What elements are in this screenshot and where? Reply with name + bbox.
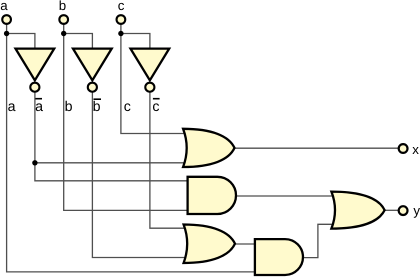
svg-text:b: b [93,99,101,115]
wire input a main run to AND2 bottom input [7,24,258,272]
wire OR1 output to terminal x [233,147,398,149]
svg-text:a: a [0,0,8,13]
svg-text:a: a [35,99,43,115]
svg-text:b: b [65,99,73,115]
wire NOT2 output bbar to OR2 bottom input [92,93,186,258]
OR gate OR1 (output x) [183,129,234,167]
overbar of bbar [94,98,102,100]
overbar of abar [35,98,42,100]
output terminal x [399,144,408,153]
AND gate AND1 [188,177,236,214]
output terminal y [399,206,408,215]
wire branch c to NOT3 input [121,34,150,50]
inverter NOT1 bubble [30,83,39,92]
input terminal a [2,15,11,24]
wire input c main run to OR1 top input [121,24,188,134]
junction dot on input c [118,31,123,36]
OR gate OR3 (output y) [331,192,384,229]
AND gate AND2 (bottom right) [255,239,303,275]
overbar of cbar [153,98,160,100]
svg-text:c: c [124,99,131,115]
svg-text:x: x [412,142,419,157]
inverter NOT1 triangle [16,49,55,81]
wire NOT3 output cbar to OR2 top input [150,93,186,229]
wire branch a to NOT1 input [7,34,35,50]
svg-text:y: y [413,203,420,218]
wire OR2 output to AND2 top input [234,243,258,245]
input terminal c [117,15,126,24]
inverter NOT3 bubble [145,83,154,92]
wire abar to OR1 bottom input [35,162,188,164]
inverter NOT2 triangle [73,49,112,81]
svg-text:b: b [59,0,66,13]
inverter NOT3 triangle [131,49,170,81]
wire abar to AND1 top input [35,163,190,181]
junction dot on input a [4,31,9,36]
svg-text:c: c [152,99,159,115]
input terminal b [59,15,68,24]
wire input b main run to AND1 bottom input [64,24,190,210]
wire branch b to NOT2 input [64,34,93,50]
wire NOT1 output abar vertical [34,93,36,163]
junction dot on input b [61,31,66,36]
wire AND2 output up to OR3 bottom input [302,224,336,257]
svg-text:c: c [118,0,125,13]
inverter NOT2 bubble [88,83,97,92]
wire AND1 output to OR3 top input [235,195,336,197]
junction dot on abar line [32,160,37,165]
svg-text:a: a [8,99,16,115]
OR gate OR2 (bottom left) [184,225,235,264]
wire OR3 output to terminal y [384,209,398,211]
